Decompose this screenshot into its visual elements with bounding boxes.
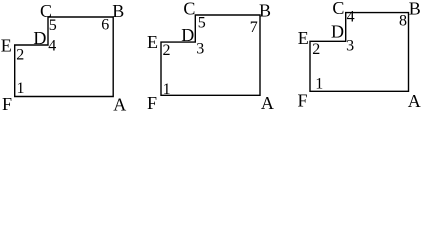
svg-text:D: D (33, 28, 46, 48)
svg-text:F: F (298, 91, 308, 111)
figure 1 hexagon E-D-C-B-A-F (15, 17, 114, 97)
svg-text:5: 5 (198, 15, 206, 32)
svg-text:2: 2 (16, 47, 24, 64)
svg-text:2: 2 (312, 41, 320, 58)
svg-text:3: 3 (196, 41, 204, 58)
figure 3 hexagon E-D-C-B-A-F (310, 13, 409, 92)
svg-text:2: 2 (163, 42, 171, 59)
svg-text:E: E (298, 28, 309, 48)
svg-text:5: 5 (49, 17, 57, 34)
svg-text:D: D (331, 22, 344, 42)
svg-text:B: B (259, 1, 271, 21)
svg-text:E: E (147, 32, 158, 52)
svg-text:F: F (2, 94, 12, 111)
svg-text:8: 8 (399, 12, 407, 29)
svg-text:F: F (147, 93, 157, 111)
svg-text:4: 4 (347, 8, 355, 25)
svg-text:B: B (112, 1, 124, 21)
figure 2 hexagon E-D-C-B-A-F (161, 15, 260, 95)
svg-text:E: E (1, 36, 12, 56)
svg-text:1: 1 (17, 80, 25, 97)
svg-text:B: B (409, 0, 421, 19)
svg-text:4: 4 (48, 38, 56, 55)
svg-text:6: 6 (101, 17, 109, 34)
svg-text:3: 3 (346, 38, 354, 55)
svg-text:A: A (113, 95, 126, 112)
svg-text:D: D (181, 25, 194, 45)
svg-text:1: 1 (163, 81, 171, 98)
svg-text:7: 7 (250, 19, 258, 36)
svg-text:C: C (183, 0, 195, 19)
svg-text:1: 1 (315, 76, 323, 93)
svg-text:A: A (408, 91, 421, 111)
svg-text:A: A (261, 93, 274, 111)
svg-text:C: C (332, 0, 344, 18)
